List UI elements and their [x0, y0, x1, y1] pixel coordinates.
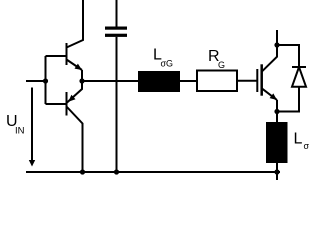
- node rail junction right: [274, 169, 279, 174]
- node rail junction left: [80, 169, 85, 174]
- transistor Q1 emitter: [67, 60, 83, 71]
- node base junction: [43, 78, 48, 83]
- wire vertical base bus: [45, 56, 47, 104]
- wire emitter to node: [276, 100, 278, 112]
- transistor Q2 collector: [67, 107, 83, 173]
- wire diode top branch: [277, 45, 299, 67]
- wire Ls to rail: [276, 163, 278, 180]
- svg-text:L: L: [294, 131, 303, 148]
- wire LsG to RG: [180, 80, 196, 82]
- wire input horizontal to base node: [26, 80, 46, 82]
- transistor Q2 PNP base bar: [66, 92, 68, 116]
- resistor RG body: [197, 71, 237, 92]
- capacitor C1 bottom lead: [116, 37, 118, 172]
- wire RG to gate: [237, 80, 257, 82]
- svg-text:G: G: [218, 60, 225, 70]
- IGBT T1 collector: [262, 30, 277, 72]
- wire output to LsG: [82, 80, 138, 82]
- voltage arrow U_IN: [31, 88, 33, 162]
- wire diode bottom branch: [277, 87, 299, 112]
- svg-text:IN: IN: [15, 126, 25, 137]
- wire emitter stub: [81, 70, 83, 81]
- diode D1 cathode bar: [292, 66, 306, 68]
- node output junction: [79, 78, 84, 83]
- wire PNP base: [46, 103, 67, 105]
- wire NPN base: [46, 55, 67, 57]
- diode D1 triangle: [292, 67, 306, 87]
- IGBT T1 channel bar: [260, 64, 263, 95]
- node rail junction capacitor: [114, 169, 119, 174]
- inductor Ls body: [266, 122, 288, 163]
- svg-text:σ: σ: [304, 141, 310, 151]
- wire node to Ls: [276, 112, 278, 123]
- svg-text:σG: σG: [161, 59, 174, 69]
- transistor Q1 NPN base bar: [66, 43, 68, 65]
- node collector junction: [274, 42, 279, 47]
- transistor Q2 PNP emitter: [67, 81, 83, 103]
- IGBT T1 emitter: [262, 88, 277, 100]
- inductor LsG body: [138, 71, 180, 92]
- IGBT T1 gate bar: [256, 69, 258, 92]
- transistor Q1 collector: [67, 0, 84, 48]
- capacitor C1 top lead: [116, 0, 118, 27]
- capacitor C1 plates: [105, 27, 127, 30]
- wire bottom rail: [26, 171, 280, 173]
- node emitter junction: [274, 109, 279, 114]
